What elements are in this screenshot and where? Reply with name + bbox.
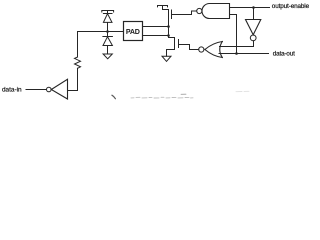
power rail VDD T-bar (diode chain)	[102, 11, 114, 14]
wire Q2 source to ground	[167, 48, 175, 56]
inverter U1 (input buffer, points left)	[51, 79, 67, 99]
node data-out junction dot	[235, 52, 238, 55]
power rail VDD T-bar (PMOS)	[158, 6, 168, 10]
diode D2 (gnd to pad)	[103, 37, 113, 55]
inverter U3 (output-enable, points down)	[246, 20, 261, 35]
wire drain bus vertical	[168, 19, 170, 38]
resistor R1	[75, 57, 81, 68]
node bus lower dot	[167, 34, 170, 37]
wire U3 output to NOR input A	[220, 41, 254, 47]
nor U4 concave input edge	[220, 42, 223, 58]
wire pad node horizontal	[78, 31, 124, 33]
nor U4 bubble	[199, 47, 204, 52]
nand U2 (points left)	[202, 4, 230, 19]
wire PAD to drain bus (lower)	[143, 35, 169, 37]
wire inverter U1 input stub	[68, 90, 78, 92]
svg-text:data-in: data-in	[2, 87, 22, 94]
node pad junction dot	[106, 30, 109, 33]
svg-text:output-enable: output-enable	[272, 3, 310, 10]
ground (diode chain)	[103, 54, 112, 59]
node bus upper dot	[167, 25, 170, 28]
inverter U3 bubble	[250, 35, 256, 41]
transistor Q2 NMOS	[169, 38, 179, 49]
inverter U1 bubble	[47, 87, 52, 92]
PAD box	[124, 22, 143, 41]
node output-enable tee dot	[252, 6, 255, 9]
diode D1 (pad to VDD)	[103, 14, 112, 32]
wire tee down to inverter U3	[253, 8, 255, 20]
wire PAD to drain bus (upper)	[143, 26, 169, 28]
transistor Q1 PMOS	[163, 10, 172, 20]
wire data-in to inverter bubble	[26, 89, 46, 91]
nand U2 bubble	[197, 8, 202, 13]
wire pad node vertical to resistor	[77, 32, 79, 58]
nor U4 (points left)	[205, 42, 222, 58]
ground (NMOS source)	[162, 56, 171, 61]
wire Q1 gate to NAND bubble	[172, 11, 197, 15]
svg-text:PAD: PAD	[126, 28, 140, 36]
wire NAND input B down to data-out	[230, 15, 237, 54]
wire Q2 gate to NOR bubble	[179, 45, 199, 50]
wire data-out line / NOR input B	[219, 53, 269, 55]
svg-text:data-out: data-out	[273, 51, 295, 58]
wire junction to diode D2	[107, 32, 109, 37]
caption smudge (cropped text at bottom)	[112, 91, 249, 98]
wire NAND input A / output-enable line	[230, 7, 270, 9]
wire resistor to inverter vertical	[77, 68, 79, 90]
